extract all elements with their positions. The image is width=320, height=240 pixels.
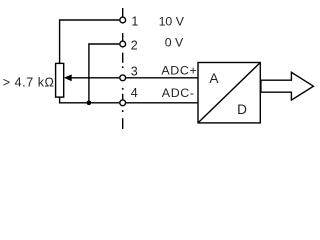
pin 1 terminal circle [120, 17, 126, 23]
potentiometer wiper arrowhead [64, 74, 72, 81]
digital output block arrow [261, 72, 314, 100]
pin 4 terminal circle [120, 100, 126, 106]
ADC box diagonal [198, 63, 260, 123]
svg-text:2: 2 [131, 39, 138, 53]
svg-text:1: 1 [131, 15, 138, 29]
wire pin2 down to 0V rail [89, 44, 119, 103]
potentiometer R body [56, 63, 64, 97]
svg-text:ADC-: ADC- [162, 86, 195, 100]
svg-text:> 4.7 kΩ: > 4.7 kΩ [3, 76, 55, 90]
wire pin4 to ADC minus input [126, 102, 198, 104]
wire pin1 to potentiometer top [60, 20, 120, 63]
svg-text:0 V: 0 V [165, 35, 184, 49]
wire potentiometer bottom rail to pin4 [60, 97, 120, 103]
svg-text:D: D [237, 102, 247, 117]
wire wiper to pin3 [66, 77, 119, 79]
junction dot 0V rail [87, 100, 92, 105]
ADC converter box U1 [198, 63, 260, 123]
svg-text:ADC+: ADC+ [161, 64, 197, 78]
connector boundary dash-dot line [122, 8, 124, 129]
svg-text:4: 4 [131, 86, 138, 100]
pin 3 terminal circle [120, 75, 126, 81]
svg-text:A: A [209, 71, 219, 86]
svg-text:10 V: 10 V [159, 15, 185, 29]
svg-text:3: 3 [131, 64, 138, 78]
wire pin3 to ADC plus input [126, 77, 198, 79]
pin 2 terminal circle [120, 41, 126, 47]
